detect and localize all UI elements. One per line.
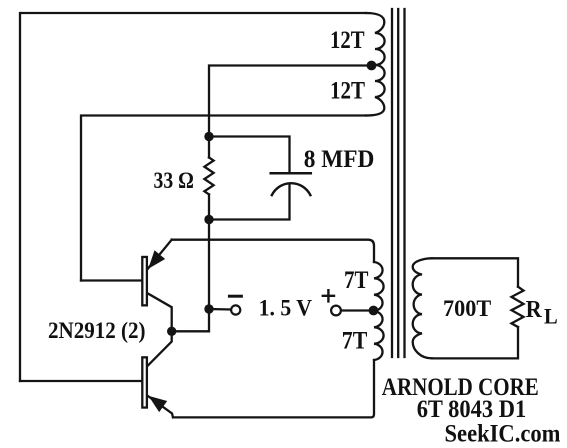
transformer winding 7T/7T (base/feedback winding)	[374, 262, 384, 360]
junction dot: battery minus junction	[204, 304, 213, 313]
battery minus terminal (open circle)	[231, 305, 240, 314]
transistor Q1 base bar	[142, 257, 147, 305]
transistor Q2 collector lead	[147, 331, 172, 366]
wire: battery plus lead to 7T center tap	[342, 309, 374, 311]
wire: inner box top rail (Q1 emitter to 7T top), rounded corner	[172, 240, 374, 262]
transistor Q1 collector lead	[147, 293, 172, 331]
wire: 7T bottom to inner box bottom rail	[173, 360, 374, 417]
svg-text:R: R	[526, 296, 542, 323]
svg-text:2N2912 (2): 2N2912 (2)	[48, 318, 146, 344]
wire: base lead of Q1 (top)	[81, 279, 141, 281]
wire: node A to resistor top	[208, 137, 210, 158]
plus sign over positive terminal	[323, 290, 334, 301]
wire: center tap of 12T/12T to node A	[209, 66, 372, 137]
minus sign over negative terminal	[229, 295, 241, 298]
transformer core (3 lamination lines)	[391, 9, 393, 357]
svg-text:SeekIC.com: SeekIC.com	[445, 420, 561, 447]
wire: capacitor branch top	[209, 137, 290, 173]
junction dot: 12T center tap	[367, 61, 377, 71]
junction dot: node A (resistor/cap top)	[204, 132, 213, 141]
svg-text:7T: 7T	[344, 267, 369, 294]
capacitor C 8MFD curved plate (dome)	[272, 183, 311, 195]
transistor Q2 emitter lead	[147, 395, 173, 417]
svg-text:1. 5 V: 1. 5 V	[259, 295, 312, 321]
junction dot: node B (resistor/cap bottom)	[204, 215, 213, 224]
svg-text:8 MFD: 8 MFD	[304, 146, 375, 173]
transformer winding 12T/12T (primary collector winding)	[366, 13, 385, 116]
wire: base lead of Q2 (bottom) from left rail	[20, 380, 141, 382]
capacitor C 8MFD top plate	[271, 172, 311, 175]
resistor RL zigzag	[512, 287, 524, 327]
wire: node B down through battery node to collectors	[172, 220, 209, 332]
wire: battery minus lead	[209, 308, 231, 311]
wire: outer loop top rail and left rail	[20, 13, 366, 381]
svg-text:12T: 12T	[330, 27, 365, 54]
transformer secondary winding 700T with load loop	[432, 258, 518, 286]
wire: resistor bottom to node B	[208, 194, 210, 219]
transistor Q1 emitter arrow (PNP)	[149, 251, 164, 267]
transistor Q2 emitter arrow (PNP)	[150, 397, 166, 411]
svg-text:33 Ω: 33 Ω	[154, 168, 194, 194]
battery plus terminal (open circle)	[331, 306, 341, 316]
svg-text:700T: 700T	[443, 296, 491, 322]
junction dot: collector junction	[167, 327, 176, 336]
resistor R 33ohm zigzag	[204, 158, 213, 195]
svg-text:6T 8043 D1: 6T 8043 D1	[417, 394, 527, 423]
svg-text:12T: 12T	[330, 77, 365, 104]
transistor Q1 emitter lead	[147, 240, 172, 270]
wire: lower 12T bottom lead across to left vertical	[81, 116, 366, 281]
wire: capacitor branch bottom	[209, 184, 290, 220]
junction dot: 7T center tap	[369, 306, 379, 316]
winding 700T scallops	[413, 258, 432, 358]
svg-text:L: L	[544, 304, 558, 329]
wire: RL bottom to secondary bottom	[432, 327, 518, 358]
transistor Q2 base bar	[142, 357, 147, 407]
svg-text:7T: 7T	[342, 327, 368, 354]
